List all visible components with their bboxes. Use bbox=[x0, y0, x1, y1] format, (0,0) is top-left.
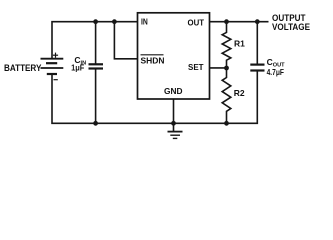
svg-text:SHDN: SHDN bbox=[141, 56, 165, 66]
svg-text:IN: IN bbox=[141, 17, 148, 27]
svg-text:OUT: OUT bbox=[188, 18, 205, 28]
svg-text:VOLTAGE: VOLTAGE bbox=[272, 22, 310, 32]
svg-text:R1: R1 bbox=[234, 39, 245, 49]
svg-text:SET: SET bbox=[188, 62, 204, 72]
svg-text:4.7μF: 4.7μF bbox=[267, 67, 284, 77]
svg-text:GND: GND bbox=[164, 86, 183, 96]
svg-text:1μF: 1μF bbox=[71, 62, 84, 72]
svg-text:R2: R2 bbox=[234, 88, 245, 98]
svg-text:BATTERY: BATTERY bbox=[4, 63, 42, 73]
